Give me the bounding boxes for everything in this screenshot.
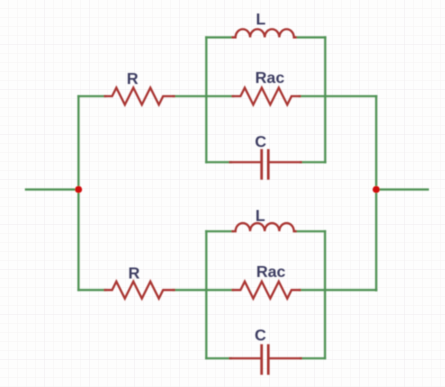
resistor R (bottom) [105, 282, 174, 299]
wire bottom box bottom-right segment [301, 357, 326, 359]
resistor Rac (bottom) [233, 282, 300, 299]
svg-text:C: C [255, 328, 267, 345]
wire bottom branch middle [174, 289, 234, 291]
node left junction [75, 186, 82, 193]
wire bottom box bottom-left segment [206, 357, 231, 359]
wire bottom branch feed [79, 289, 106, 291]
svg-text:Rac: Rac [256, 264, 285, 281]
wire top box bottom-right segment [301, 161, 326, 163]
wire top box left side [205, 37, 207, 162]
svg-text:L: L [256, 12, 266, 29]
node right junction [373, 186, 380, 193]
wire top branch middle [174, 95, 234, 97]
wire left column [77, 96, 79, 290]
wire right output stub [376, 188, 428, 190]
wire top branch right [299, 95, 376, 97]
wire bottom box left side [205, 231, 207, 358]
capacitor C (top) [230, 150, 301, 178]
resistor R (top) [105, 88, 174, 105]
wire top branch feed [79, 95, 106, 97]
wire top box right side [324, 37, 326, 162]
svg-text:R: R [127, 71, 139, 88]
wire bottom box top-right segment [295, 230, 325, 232]
wire bottom box top-left segment [206, 230, 233, 232]
svg-text:C: C [255, 134, 267, 151]
wire left input stub [26, 188, 79, 190]
wire top box top-left segment [206, 36, 233, 38]
wire top box top-right segment [295, 36, 325, 38]
resistor Rac (top) [233, 88, 300, 105]
svg-text:Rac: Rac [255, 70, 284, 87]
wire right column [375, 96, 377, 290]
wire bottom box right side [324, 231, 326, 358]
wire top box bottom-left segment [206, 161, 231, 163]
inductor L (bottom) [233, 223, 296, 231]
svg-text:L: L [255, 208, 265, 225]
wire bottom branch right [299, 289, 376, 291]
inductor L (top) [233, 29, 296, 37]
capacitor C (bottom) [230, 346, 301, 374]
svg-text:R: R [128, 266, 140, 283]
